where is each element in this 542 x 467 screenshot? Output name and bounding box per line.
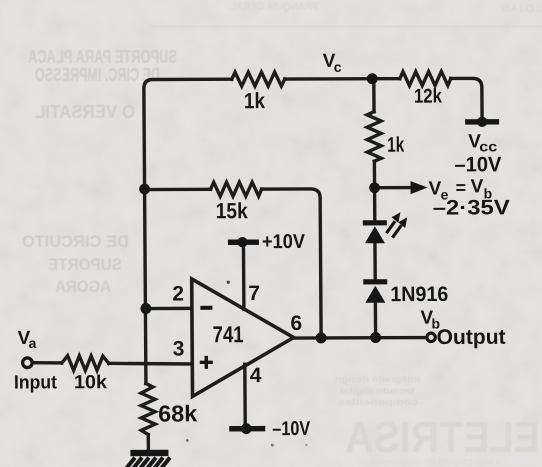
svg-text:4: 4	[250, 364, 262, 387]
svg-text:SUPORTE PARA PLACA: SUPORTE PARA PLACA	[28, 47, 177, 67]
svg-text:–2·35V: –2·35V	[433, 196, 510, 219]
svg-text:O VERSATIL: O VERSATIL	[35, 102, 135, 122]
svg-text:Output: Output	[437, 326, 506, 349]
svg-text:–10V: –10V	[272, 418, 311, 440]
svg-text:integrado design: integrado design	[335, 374, 420, 384]
svg-text:SUPORTE: SUPORTE	[48, 255, 122, 274]
svg-text:a mais completa em componentes: a mais completa em componentes	[370, 457, 500, 467]
svg-text:741: 741	[212, 321, 243, 347]
svg-text:3: 3	[173, 337, 185, 360]
svg-text:ELETRISA: ELETRISA	[345, 413, 540, 462]
svg-text:DE CIRCUITO: DE CIRCUITO	[22, 232, 129, 251]
svg-text:AGORA: AGORA	[55, 277, 111, 296]
svg-text:7: 7	[248, 282, 260, 305]
svg-text:V: V	[470, 176, 483, 197]
svg-text:15k: 15k	[216, 198, 249, 223]
svg-text:LOJAS: LOJAS	[502, 3, 542, 15]
svg-text:–10V: –10V	[454, 153, 501, 176]
svg-text:2: 2	[172, 282, 184, 305]
svg-text:c: c	[334, 59, 342, 75]
svg-text:teclado digital: teclado digital	[340, 386, 415, 396]
svg-text:Input: Input	[14, 372, 58, 393]
svg-text:1k: 1k	[387, 134, 404, 157]
svg-text:10k: 10k	[74, 372, 108, 393]
svg-text:DE CIRC. IMPRESSO: DE CIRC. IMPRESSO	[35, 65, 160, 85]
svg-text:68k: 68k	[158, 400, 197, 426]
svg-text:6: 6	[290, 312, 302, 335]
svg-text:a: a	[29, 335, 37, 351]
svg-text:componentes: componentes	[338, 397, 418, 407]
svg-text:1N916: 1N916	[390, 283, 448, 306]
svg-text:+10V: +10V	[262, 231, 306, 253]
svg-text:12k: 12k	[414, 85, 443, 107]
svg-text:1k: 1k	[244, 88, 266, 113]
svg-text:cc: cc	[479, 138, 497, 154]
svg-text:=: =	[455, 177, 466, 197]
svg-text:FRANQUIA GERAL: FRANQUIA GERAL	[230, 1, 318, 13]
